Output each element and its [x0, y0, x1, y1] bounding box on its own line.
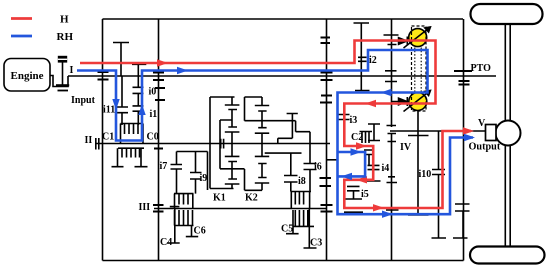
svg-text:C0: C0 [147, 132, 159, 143]
svg-text:i0: i0 [149, 87, 157, 98]
svg-text:i8: i8 [298, 176, 306, 187]
svg-text:C6: C6 [194, 226, 206, 237]
svg-text:IV: IV [400, 142, 412, 153]
svg-text:K2: K2 [245, 193, 258, 204]
svg-text:Input: Input [71, 95, 96, 106]
svg-text:i4: i4 [382, 163, 390, 174]
svg-text:i6: i6 [314, 162, 322, 173]
svg-text:i3: i3 [350, 115, 358, 126]
svg-text:i5: i5 [361, 189, 369, 200]
svg-text:Output: Output [469, 142, 501, 153]
svg-text:K1: K1 [213, 193, 226, 204]
svg-text:I: I [70, 65, 74, 76]
svg-text:i2: i2 [369, 55, 377, 66]
svg-text:i1: i1 [150, 109, 158, 120]
svg-text:i11: i11 [103, 105, 115, 116]
svg-text:V: V [478, 118, 486, 129]
svg-text:H: H [60, 14, 69, 26]
svg-text:PTO: PTO [471, 63, 492, 74]
svg-text:III: III [139, 202, 151, 213]
svg-text:C2: C2 [351, 132, 363, 143]
svg-text:Engine: Engine [10, 70, 43, 82]
svg-text:i7: i7 [160, 161, 168, 172]
svg-text:i9: i9 [200, 173, 208, 184]
svg-text:C5: C5 [281, 224, 293, 235]
svg-text:C4: C4 [160, 237, 172, 248]
svg-text:C1: C1 [102, 132, 114, 143]
svg-text:RH: RH [57, 31, 74, 43]
svg-text:II: II [85, 135, 93, 146]
svg-text:C3: C3 [310, 238, 322, 249]
svg-text:i10: i10 [419, 169, 432, 180]
